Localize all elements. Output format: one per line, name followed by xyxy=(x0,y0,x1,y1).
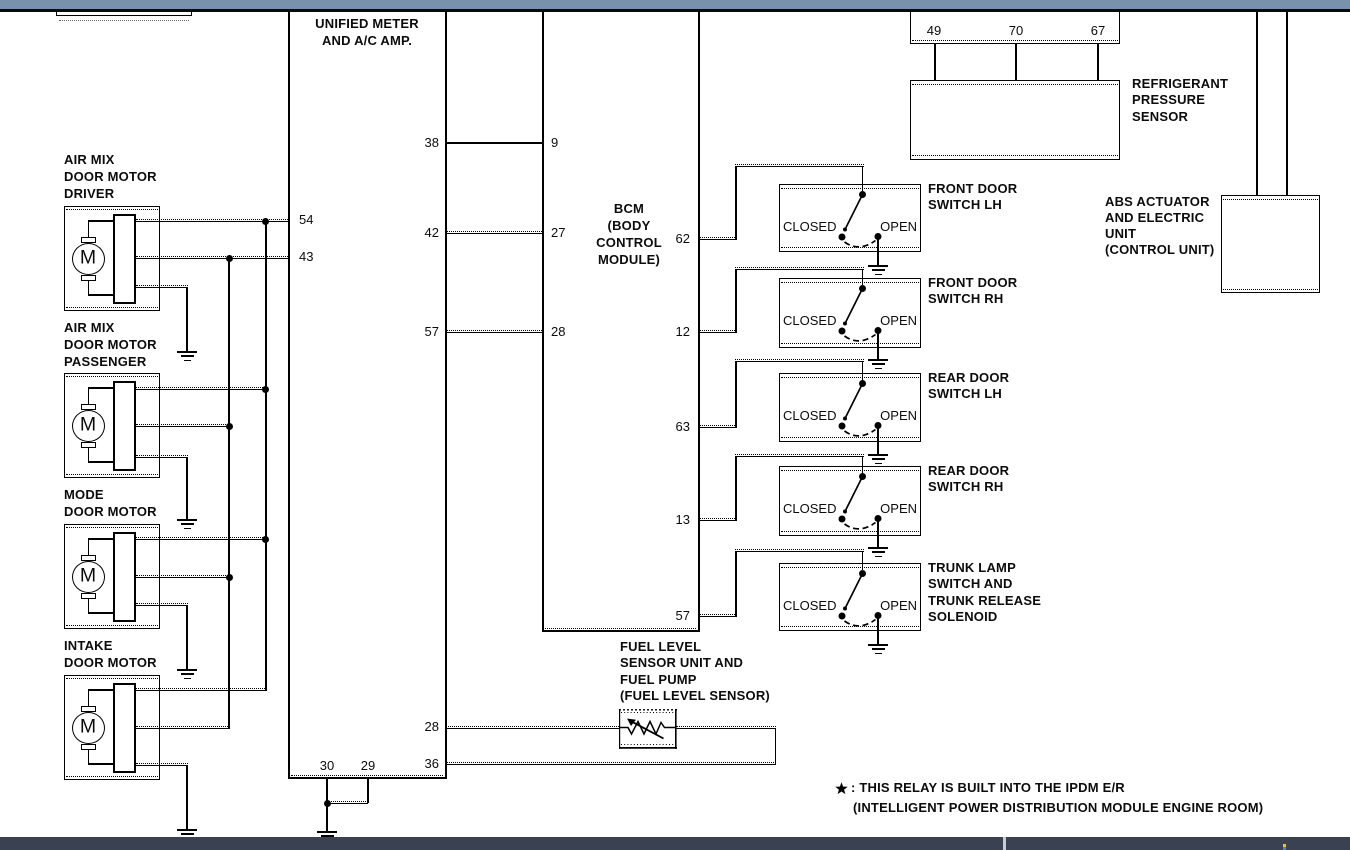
wire: unified meter pin 57 to BCM pin 28 xyxy=(446,330,542,333)
label: M2 AIR MIX DOOR MOTOR PASSENGER xyxy=(64,319,157,370)
label: S3 REAR DOOR SWITCH LH xyxy=(928,370,1009,403)
wire: right feed to ABS actuator xyxy=(1286,12,1288,195)
wire: BCM pin 57 feed to elbow (S5 TRUNK LAMP SWITCH AND TRUNK RELEASE SOLENOID) xyxy=(699,614,737,617)
text OPEN in S1 FRONT DOOR SWITCH LH xyxy=(880,219,917,234)
star symbol of footnote xyxy=(835,782,848,795)
wire: motor M1 to pin 54 of unified meter xyxy=(136,219,288,222)
inner dotted top of switch box S3 REAR DOOR SWITCH LH xyxy=(781,377,919,378)
switch symbol of S4 REAR DOOR SWITCH RH (common, CLOSED contact, OPEN contact, lever, travel arc) xyxy=(779,466,921,536)
wire: drop into S5 TRUNK LAMP SWITCH AND TRUNK RELEASE SOLENOID common contact xyxy=(862,551,864,570)
text CLOSED in S5 TRUNK LAMP SWITCH AND TRUNK RELEASE SOLENOID xyxy=(783,598,836,613)
inner dotted bottom of unified meter box xyxy=(291,775,443,776)
wire: feed riser for S1 FRONT DOOR SWITCH LH xyxy=(735,166,737,239)
bottom brush terminal of M4 xyxy=(81,744,96,750)
inner dotted bottom of switch box S1 FRONT DOOR SWITCH LH xyxy=(781,247,919,248)
wire: fuel level sensor to right elbow xyxy=(676,726,776,729)
pin 12 of BCM xyxy=(676,324,690,339)
connector rectangle of M2 xyxy=(113,381,136,471)
wire: feed riser for S3 REAR DOOR SWITCH LH xyxy=(735,361,737,427)
switch box S1 FRONT DOOR SWITCH LH xyxy=(779,184,921,252)
motor box M1 AIR MIX DOOR MOTOR DRIVER xyxy=(64,206,160,311)
inner dotted bottom of motor box M4 xyxy=(66,776,158,777)
ground of unified meter pins 29/30 xyxy=(316,831,338,842)
wire motor M2 top lead horizontal xyxy=(88,387,113,388)
ground of motor M3 xyxy=(176,669,198,680)
ABS actuator and electric unit box xyxy=(1221,195,1320,293)
inner dotted top of motor box M1 xyxy=(66,209,158,210)
wire: feed top run for S5 TRUNK LAMP SWITCH AND TRUNK RELEASE SOLENOID xyxy=(735,549,864,552)
wire motor M3 bottom lead horizontal xyxy=(88,612,113,613)
inner dotted bottom of motor box M3 xyxy=(66,625,158,626)
wire: BCM pin 13 feed to elbow (S4 REAR DOOR SWITCH RH) xyxy=(699,518,737,521)
bottom brush terminal of M1 xyxy=(81,275,96,281)
text CLOSED in S1 FRONT DOOR SWITCH LH xyxy=(783,219,836,234)
pin 13 of BCM xyxy=(676,512,690,527)
switch symbol of S2 FRONT DOOR SWITCH RH (common, CLOSED contact, OPEN contact, lever, travel arc) xyxy=(779,278,921,348)
connector rectangle of M3 xyxy=(113,532,136,622)
label: BCM (BODY CONTROL MODULE) xyxy=(596,200,662,268)
junction bus A / M3 top xyxy=(262,536,269,543)
wire: feed top run for S1 FRONT DOOR SWITCH LH xyxy=(735,164,864,167)
wire: pin 28 to fuel level sensor xyxy=(446,726,619,729)
pin 57 of unified meter xyxy=(425,324,439,339)
wire: motor M3 mid lead to bus B xyxy=(136,575,230,578)
bottom brush terminal of M3 xyxy=(81,593,96,599)
wire: motor M4 top lead to bus A xyxy=(136,688,267,691)
top brush terminal of M3 xyxy=(81,555,96,561)
letter M of motor M2 xyxy=(80,414,96,437)
connector module U1: UNIFIED METER AND A/C AMP box xyxy=(288,11,447,779)
top brush terminal of M1 xyxy=(81,237,96,243)
pin 42 of unified meter xyxy=(425,225,439,240)
junction pins 29/30 xyxy=(324,800,331,807)
junction bus B / M2 mid xyxy=(226,423,233,430)
wire: motor M2 ground lead xyxy=(136,455,188,458)
wire: pin 67 to refrigerant pressure sensor xyxy=(1097,44,1099,80)
switch box S4 REAR DOOR SWITCH RH xyxy=(779,466,921,536)
inner dotted bottom of switch box S2 FRONT DOOR SWITCH RH xyxy=(781,343,919,344)
ground of motor M1 xyxy=(176,351,198,362)
wire: vertical bus A from pin 54 xyxy=(265,221,267,690)
wire: feed riser for S4 REAR DOOR SWITCH RH xyxy=(735,456,737,520)
wire: S4 REAR DOOR SWITCH RH OPEN contact to ground xyxy=(877,519,879,547)
wire: S2 FRONT DOOR SWITCH RH OPEN contact to ground xyxy=(877,331,879,359)
pin 30 of unified meter xyxy=(320,758,334,773)
label: ABS ACTUATOR AND ELECTRIC UNIT (CONTROL UNIT) xyxy=(1105,194,1214,258)
wire motor M1 top lead vertical xyxy=(88,221,89,237)
text CLOSED in S3 REAR DOOR SWITCH LH xyxy=(783,408,836,423)
wire: drop into S1 FRONT DOOR SWITCH LH common contact xyxy=(862,166,864,191)
wire: pin 70 to refrigerant pressure sensor xyxy=(1015,44,1017,80)
wire motor M3 top lead horizontal xyxy=(88,538,113,539)
label: S2 FRONT DOOR SWITCH RH xyxy=(928,275,1017,308)
inner dotted top of switch box S2 FRONT DOOR SWITCH RH xyxy=(781,282,919,283)
motor M2 circle symbol xyxy=(72,410,105,442)
ground of S4 REAR DOOR SWITCH RH xyxy=(867,547,889,558)
text OPEN in S2 FRONT DOOR SWITCH RH xyxy=(880,313,917,328)
motor M3 circle symbol xyxy=(72,561,105,593)
wire: BCM pin 12 feed to elbow (S2 FRONT DOOR SWITCH RH) xyxy=(699,330,737,333)
inner dotted bottom of motor box M1 xyxy=(66,307,158,308)
ground of S5 TRUNK LAMP SWITCH AND TRUNK RELEASE SOLENOID xyxy=(867,644,889,655)
wire motor M4 bottom lead horizontal xyxy=(88,763,113,764)
pin 54 of unified meter xyxy=(299,212,313,227)
wire: vertical bus B from pin 43 xyxy=(228,258,230,728)
inner dotted bottom of refrigerant sensor box xyxy=(912,155,1118,156)
wire: motor M1 ground lead xyxy=(136,285,188,288)
inner dotted top of switch box S1 FRONT DOOR SWITCH LH xyxy=(781,188,919,189)
wire: M3 ground drop xyxy=(186,605,188,669)
ground of S1 FRONT DOOR SWITCH LH xyxy=(867,265,889,276)
switch symbol of S5 TRUNK LAMP SWITCH AND TRUNK RELEASE SOLENOID (common, CLOSED contact, OPEN contact, lever, travel arc) xyxy=(779,563,921,631)
top blue title bar xyxy=(0,0,1350,9)
pin 36 of unified meter (bottom) xyxy=(425,756,439,771)
pin 63 of BCM xyxy=(676,419,690,434)
wire motor M4 bottom lead vertical xyxy=(88,750,89,765)
switch symbol of S1 FRONT DOOR SWITCH LH (common, CLOSED contact, OPEN contact, lever, travel arc) xyxy=(779,184,921,252)
wire: drop into S2 FRONT DOOR SWITCH RH common contact xyxy=(862,269,864,285)
wire: motor M1 to pin 43 of unified meter xyxy=(136,256,288,259)
wire: motor M4 ground lead xyxy=(136,763,188,766)
wire: S5 TRUNK LAMP SWITCH AND TRUNK RELEASE SOLENOID OPEN contact to ground xyxy=(877,616,879,644)
letter M of motor M1 xyxy=(80,247,96,270)
pin 9 of BCM xyxy=(551,135,558,150)
wire: S1 FRONT DOOR SWITCH LH OPEN contact to ground xyxy=(877,237,879,265)
control module U2: BCM box xyxy=(542,11,700,632)
motor M4 circle symbol xyxy=(72,712,105,744)
wire: motor M2 mid lead to bus B xyxy=(136,424,230,427)
inner dotted top of motor box M3 xyxy=(66,527,158,528)
wire: drop into S3 REAR DOOR SWITCH LH common contact xyxy=(862,361,864,380)
text CLOSED in S2 FRONT DOOR SWITCH RH xyxy=(783,313,836,328)
wire: BCM pin 63 feed to elbow (S3 REAR DOOR SWITCH LH) xyxy=(699,425,737,428)
wire: feed riser for S5 TRUNK LAMP SWITCH AND TRUNK RELEASE SOLENOID xyxy=(735,551,737,616)
junction bus B / wire 43 xyxy=(226,255,233,262)
label: M4 INTAKE DOOR MOTOR xyxy=(64,637,157,671)
switch box S5 TRUNK LAMP SWITCH AND TRUNK RELEASE SOLENOID xyxy=(779,563,921,631)
wire: feed top run for S2 FRONT DOOR SWITCH RH xyxy=(735,267,864,270)
inner dotted top of refrigerant sensor box xyxy=(912,84,1118,85)
inner dotted bottom of BCM box xyxy=(545,628,696,629)
switch symbol of S3 REAR DOOR SWITCH LH (common, CLOSED contact, OPEN contact, lever, travel arc) xyxy=(779,373,921,442)
wire: return to pin 36 xyxy=(446,762,776,765)
wire: M2 ground drop xyxy=(186,457,188,519)
pin 29 of unified meter xyxy=(361,758,375,773)
ground of S2 FRONT DOOR SWITCH RH xyxy=(867,359,889,370)
text OPEN in S4 REAR DOOR SWITCH RH xyxy=(880,501,917,516)
ground of motor M2 xyxy=(176,519,198,530)
pin 49 xyxy=(927,23,941,38)
wire: motor M4 mid lead to bus B xyxy=(136,726,230,729)
ground of S3 REAR DOOR SWITCH LH xyxy=(867,454,889,465)
wire: pin 49 to refrigerant pressure sensor xyxy=(934,44,936,80)
pin 70 xyxy=(1009,23,1023,38)
pin 62 of BCM xyxy=(676,231,690,246)
inner dotted bottom of switch box S4 REAR DOOR SWITCH RH xyxy=(781,531,919,532)
fuel level sensor R1 (variable resistor) xyxy=(619,709,677,749)
top brush terminal of M2 xyxy=(81,404,96,410)
wire motor M3 bottom lead vertical xyxy=(88,599,89,614)
label: UNIFIED METER AND A/C AMP. xyxy=(315,15,419,49)
switch box S2 FRONT DOOR SWITCH RH xyxy=(779,278,921,348)
refrigerant pressure sensor box xyxy=(910,80,1120,160)
inner dotted top of motor box M2 xyxy=(66,376,158,377)
inner dotted bottom of switch box S3 REAR DOOR SWITCH LH xyxy=(781,437,919,438)
footnote text line 2: (INTELLIGENT POWER DISTRIBUTION MODULE ENGINE ROOM) xyxy=(853,800,1263,816)
wire motor M2 bottom lead horizontal xyxy=(88,461,113,462)
top brush terminal of M4 xyxy=(81,706,96,712)
inner dotted top of switch box S5 TRUNK LAMP SWITCH AND TRUNK RELEASE SOLENOID xyxy=(781,567,919,568)
pin 57 of BCM xyxy=(676,608,690,623)
inner dotted top of ABS box xyxy=(1223,199,1318,200)
inner dotted top of switch box S4 REAR DOOR SWITCH RH xyxy=(781,470,919,471)
label: FUEL LEVEL SENSOR UNIT AND FUEL PUMP (FUEL LEVEL SENSOR) xyxy=(620,639,770,705)
wire: pin 29 to pin 30 link xyxy=(327,801,368,804)
pin 28 of BCM xyxy=(551,324,565,339)
label: S1 FRONT DOOR SWITCH LH xyxy=(928,181,1017,214)
bottom brush terminal of M2 xyxy=(81,442,96,448)
label: REFRIGERANT PRESSURE SENSOR xyxy=(1132,76,1228,126)
cut-off connector box with pins 49/70/67 xyxy=(910,11,1120,44)
label: M1 AIR MIX DOOR MOTOR DRIVER xyxy=(64,151,157,202)
motor M1 circle symbol xyxy=(72,243,105,275)
pin 27 of BCM xyxy=(551,225,565,240)
wire motor M1 bottom lead horizontal xyxy=(88,294,113,295)
wire motor M4 top lead vertical xyxy=(88,690,89,706)
connector rectangle of M4 xyxy=(113,683,136,773)
wire motor M4 top lead horizontal xyxy=(88,689,113,690)
wire motor M2 top lead vertical xyxy=(88,388,89,404)
pin 28 of unified meter (bottom) xyxy=(425,719,439,734)
wire: motor M3 top lead to bus A xyxy=(136,537,267,540)
wire: M4 ground drop xyxy=(186,765,188,829)
inner dotted bottom of motor box M2 xyxy=(66,474,158,475)
pin 43 of unified meter xyxy=(299,249,313,264)
wire motor M1 top lead horizontal xyxy=(88,220,113,221)
pin 38 of unified meter xyxy=(425,135,439,150)
motor box M3 MODE DOOR MOTOR xyxy=(64,524,160,629)
switch box S3 REAR DOOR SWITCH LH xyxy=(779,373,921,442)
tiny cursor glyph in bottom bar xyxy=(1283,844,1286,848)
connector rectangle of M1 xyxy=(113,214,136,304)
letter M of motor M3 xyxy=(80,565,96,588)
inner dotted bottom of ABS box xyxy=(1223,289,1318,290)
junction bus B / M3 mid xyxy=(226,574,233,581)
text OPEN in S5 TRUNK LAMP SWITCH AND TRUNK RELEASE SOLENOID xyxy=(880,598,917,613)
inner dotted top of motor box M4 xyxy=(66,678,158,679)
wire: left feed to ABS actuator xyxy=(1256,12,1258,195)
wire: unified meter pin 38 to BCM pin 9 xyxy=(446,142,542,144)
bottom dark status bar xyxy=(0,837,1350,850)
top black border line xyxy=(0,9,1350,12)
text CLOSED in S4 REAR DOOR SWITCH RH xyxy=(783,501,836,516)
junction bus A / wire 54 xyxy=(262,218,269,225)
wire motor M3 top lead vertical xyxy=(88,539,89,555)
wire: feed riser for S2 FRONT DOOR SWITCH RH xyxy=(735,269,737,332)
wire: S3 REAR DOOR SWITCH LH OPEN contact to ground xyxy=(877,426,879,454)
wire: feed top run for S3 REAR DOOR SWITCH LH xyxy=(735,359,864,362)
wire: unified meter pin 42 to BCM pin 27 xyxy=(446,231,542,234)
wire: motor M2 top lead to bus A xyxy=(136,387,267,390)
ground of motor M4 xyxy=(176,829,198,840)
letter M of motor M4 xyxy=(80,716,96,739)
cut-off connector box (top left) xyxy=(56,11,192,16)
dotted inner line of cut-off connector box xyxy=(59,20,189,21)
inner dotted bottom of switch box S5 TRUNK LAMP SWITCH AND TRUNK RELEASE SOLENOID xyxy=(781,626,919,627)
wire: motor M3 ground lead xyxy=(136,603,188,606)
label: S4 REAR DOOR SWITCH RH xyxy=(928,463,1009,496)
wire: pin 29 drop xyxy=(367,779,369,803)
wire: M1 ground drop xyxy=(186,287,188,351)
wire motor M1 bottom lead vertical xyxy=(88,281,89,296)
label: M3 MODE DOOR MOTOR xyxy=(64,486,157,520)
motor box M4 INTAKE DOOR MOTOR xyxy=(64,675,160,780)
wire: drop into S4 REAR DOOR SWITCH RH common contact xyxy=(862,456,864,473)
pin 67 xyxy=(1091,23,1105,38)
junction bus A / M2 top xyxy=(262,386,269,393)
wire: pin 30 ground drop xyxy=(326,779,328,831)
label: S5 TRUNK LAMP SWITCH AND TRUNK RELEASE SOLENOID xyxy=(928,560,1041,625)
wire: feed top run for S4 REAR DOOR SWITCH RH xyxy=(735,454,864,457)
text OPEN in S3 REAR DOOR SWITCH LH xyxy=(880,408,917,423)
wire: fuel sensor loop vertical xyxy=(775,728,777,765)
wire motor M2 bottom lead vertical xyxy=(88,448,89,463)
light divider in bottom bar xyxy=(1003,837,1006,850)
wire: BCM pin 62 feed to elbow (S1 FRONT DOOR SWITCH LH) xyxy=(699,237,737,240)
inner dotted bottom of 49/70/67 connector box xyxy=(912,40,1118,41)
motor box M2 AIR MIX DOOR MOTOR PASSENGER xyxy=(64,373,160,478)
footnote text: THIS RELAY IS BUILT INTO THE IPDM E/R xyxy=(851,780,1125,796)
